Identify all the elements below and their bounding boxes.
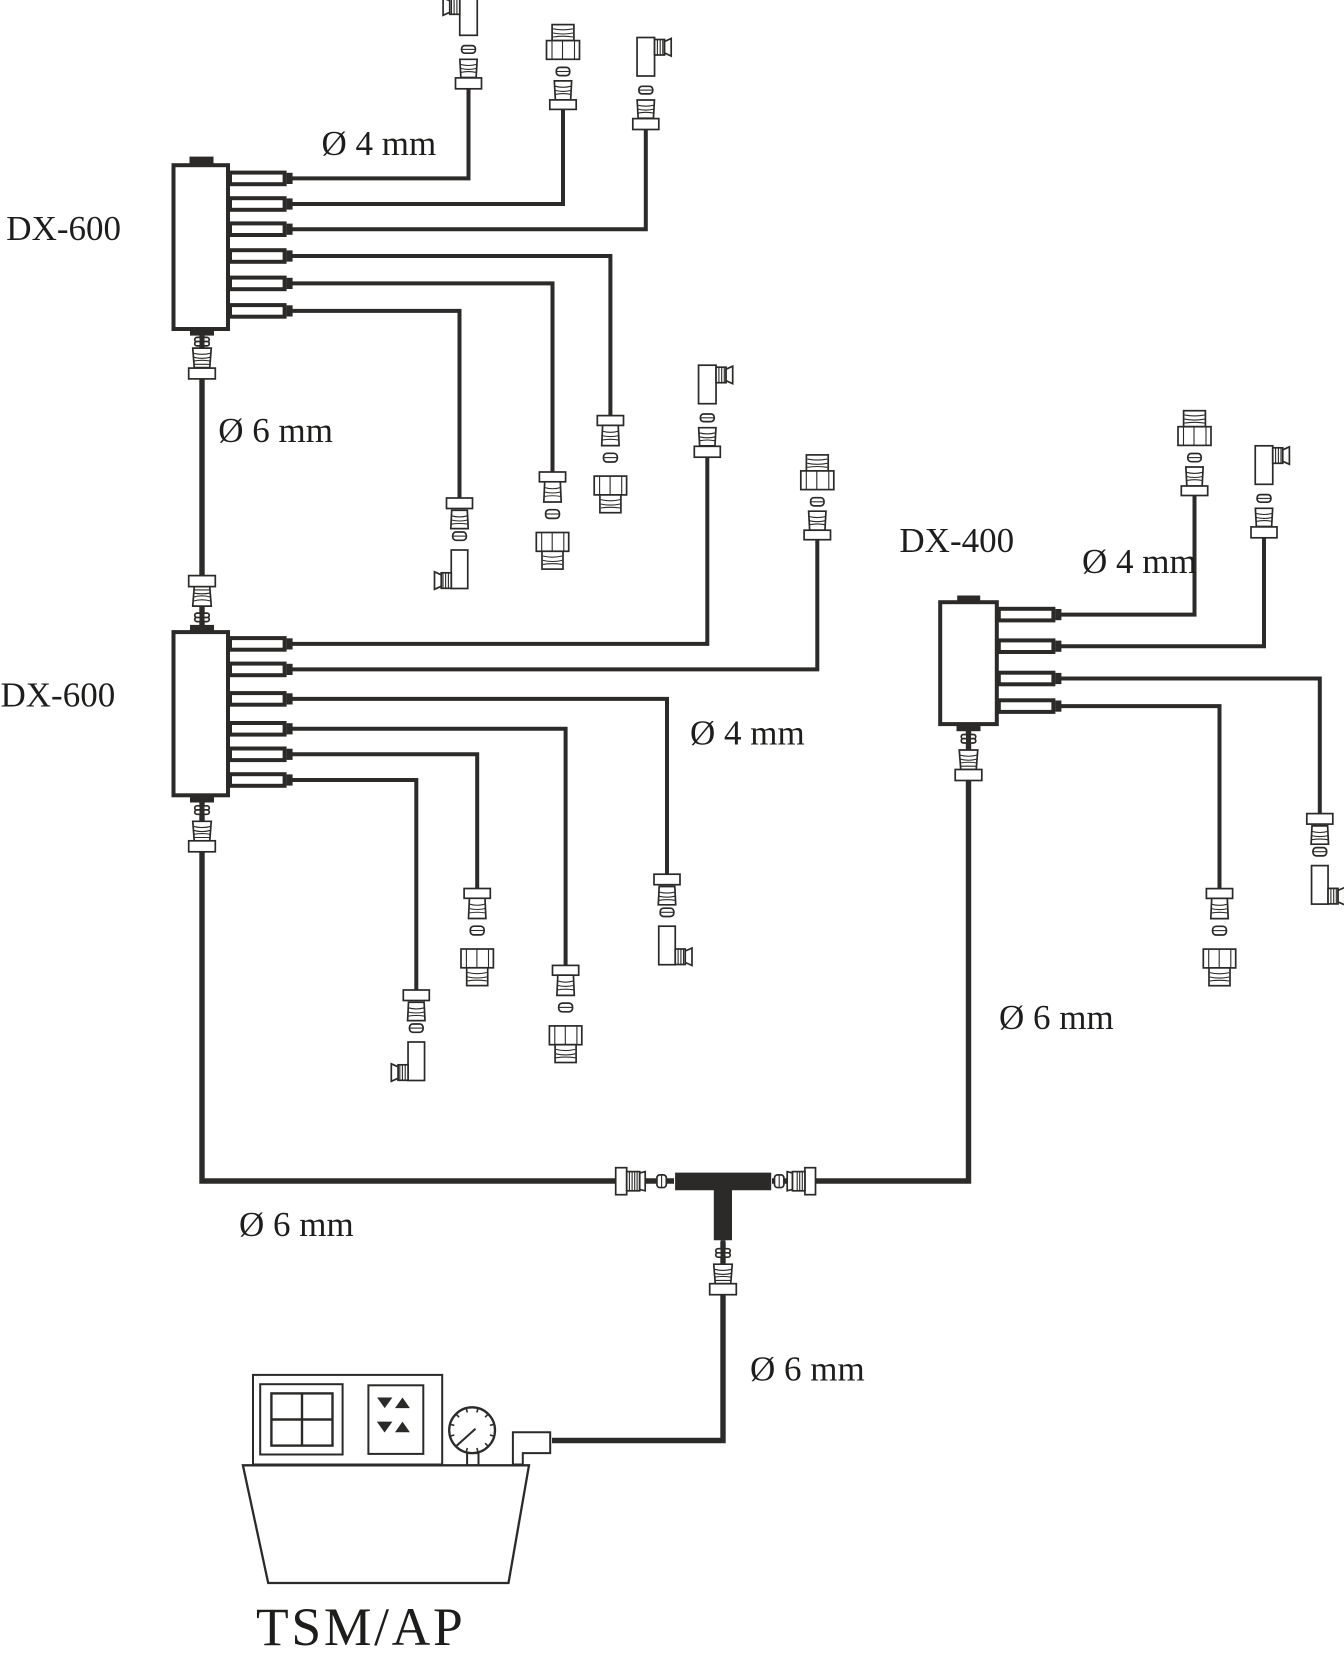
port 5 of DX-600 #1: [230, 278, 293, 290]
straight push-in fitting, DX-600 #1 port 2: [547, 25, 580, 110]
port 6 of DX-600 #1: [230, 305, 293, 317]
pump tank: [243, 1465, 529, 1583]
distributor block DX-600 #1: [174, 157, 293, 329]
T-junction body: [675, 1173, 771, 1241]
pump display window: [260, 1384, 342, 1454]
distributor block DX-600 #2: [174, 632, 293, 795]
port 4 of DX-600 #1: [230, 250, 293, 262]
straight push-in fitting, DX-600 #2 port 5: [461, 889, 493, 986]
port 4 of DX-600 #2: [230, 723, 293, 735]
svg-text:Ø 4 mm: Ø 4 mm: [1082, 542, 1197, 581]
port 1 of DX-600 #1: [230, 173, 293, 185]
wire: DX-600 #2 port 6 to elbow fitting, 4 mm: [291, 780, 416, 990]
svg-text:Ø 6 mm: Ø 6 mm: [218, 411, 333, 450]
svg-text:DX-400: DX-400: [899, 521, 1014, 560]
pump control box: [253, 1375, 442, 1465]
wire: DX-400 port 2 to elbow fitting, 4 mm: [1060, 538, 1264, 646]
svg-text:DX-600: DX-600: [6, 209, 121, 248]
wire: DX-400 outlet down and left to T-junction right branch, 6 mm: [772, 728, 969, 1181]
wire: T-junction stem down and left to TSM/AP pump, 6 mm: [552, 1242, 723, 1441]
port 1 of DX-400: [999, 609, 1062, 621]
wire: DX-600 #1 port 1 to elbow fitting, 4 mm: [291, 89, 468, 179]
port 4 of DX-400: [999, 700, 1062, 712]
svg-text:Ø 6 mm: Ø 6 mm: [750, 1350, 865, 1389]
straight push-in fitting, DX-400 port 1: [1178, 411, 1211, 496]
elbow push-in fitting, DX-600 #1 port 1: [443, 0, 481, 89]
inlet coupling above DX-600 #2: [189, 576, 216, 632]
pump button panel: [368, 1385, 423, 1454]
straight push-in fitting, DX-600 #2 port 2: [801, 455, 834, 540]
port 3 of DX-400: [999, 673, 1062, 685]
straight push-in fitting, DX-400 port 4: [1203, 889, 1235, 986]
wire: DX-600 #2 port 3 to elbow fitting, 4 mm: [291, 699, 667, 874]
port 1 of DX-600 #2: [230, 638, 293, 650]
T-junction right branch fitting: [775, 1168, 816, 1195]
port 5 of DX-600 #2: [230, 749, 293, 761]
wire: DX-600 #1 port 2 to straight fitting, 4 mm: [291, 109, 563, 204]
elbow push-in fitting, DX-600 #2 port 3: [654, 874, 692, 965]
wire: DX-600 #1 port 5 to straight fitting, 4 mm: [291, 283, 552, 472]
elbow push-in fitting, DX-400 port 2: [1251, 446, 1289, 538]
port 2 of DX-400: [999, 640, 1062, 652]
pressure gauge: [449, 1407, 495, 1465]
T-junction left branch fitting: [616, 1168, 667, 1195]
elbow push-in fitting, DX-400 port 3: [1307, 814, 1344, 905]
wire: DX-400 port 3 to elbow fitting, 4 mm: [1060, 679, 1320, 814]
elbow push-in fitting, DX-600 #1 port 3: [633, 38, 671, 130]
wire: DX-600 #1 outlet down to DX-600 #2 inlet, 6 mm: [199, 333, 204, 629]
distributor block DX-400: [940, 596, 1061, 725]
wire: DX-600 #1 port 6 to elbow fitting, 4 mm: [291, 311, 459, 498]
port 3 of DX-600 #1: [230, 223, 293, 235]
outlet coupling below DX-600 #1: [189, 329, 216, 379]
svg-text:Ø 6 mm: Ø 6 mm: [239, 1205, 354, 1244]
straight push-in fitting, DX-600 #1 port 4: [594, 416, 626, 513]
svg-text:TSM/AP: TSM/AP: [256, 1597, 465, 1656]
wire: DX-400 port 1 to straight fitting, 4 mm: [1060, 496, 1195, 615]
port 3 of DX-600 #2: [230, 693, 293, 705]
elbow push-in fitting, DX-600 #1 port 6: [435, 498, 473, 589]
port 6 of DX-600 #2: [230, 774, 293, 786]
wire: DX-600 #2 port 4 to straight fitting, 4 mm: [291, 729, 565, 966]
elbow push-in fitting, DX-600 #2 port 1: [694, 365, 732, 457]
T-junction bottom coupling: [710, 1240, 737, 1295]
svg-text:Ø 6 mm: Ø 6 mm: [999, 998, 1114, 1037]
port 2 of DX-600 #2: [230, 664, 293, 676]
elbow push-in fitting, DX-600 #2 port 6: [391, 990, 429, 1081]
svg-text:DX-600: DX-600: [1, 676, 116, 715]
wire: DX-400 port 4 to straight fitting, 4 mm: [1060, 706, 1220, 889]
port 2 of DX-600 #1: [230, 198, 293, 210]
straight push-in fitting, DX-600 #1 port 5: [536, 472, 568, 569]
wire: DX-600 #1 port 3 to elbow fitting, 4 mm: [291, 130, 645, 230]
pump outlet connector: [513, 1432, 550, 1464]
outlet coupling below DX-400: [955, 724, 982, 780]
wire: DX-600 #2 port 5 to straight fitting, 4 mm: [291, 754, 477, 888]
pump buttons (triangles): [377, 1398, 410, 1433]
svg-text:Ø 4 mm: Ø 4 mm: [690, 714, 805, 753]
wire: DX-600 #2 outlet down and right to T-junction left branch, 6 mm: [202, 799, 674, 1181]
wire: DX-600 #2 port 1 to elbow fitting, 4 mm: [291, 457, 707, 644]
wire: DX-600 #1 port 4 to straight fitting, 4 mm: [291, 256, 610, 416]
svg-text:Ø 4 mm: Ø 4 mm: [322, 124, 437, 163]
straight push-in fitting, DX-600 #2 port 4: [549, 965, 581, 1062]
wire: DX-600 #2 port 2 to straight fitting, 4 mm: [291, 540, 817, 670]
outlet coupling below DX-600 #2: [189, 796, 216, 852]
